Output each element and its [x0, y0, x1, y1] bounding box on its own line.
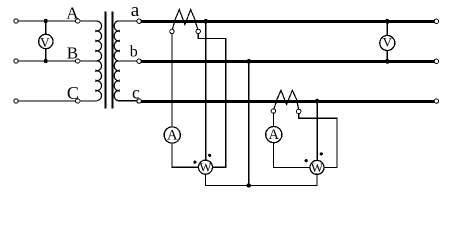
svg-text:A: A — [66, 3, 79, 22]
svg-text:V: V — [383, 35, 393, 50]
svg-text:B: B — [67, 43, 78, 62]
svg-text:c: c — [132, 83, 140, 103]
svg-text:W: W — [199, 159, 212, 174]
svg-text:a: a — [131, 0, 140, 21]
svg-text:A: A — [167, 127, 178, 143]
svg-text:W: W — [311, 160, 324, 175]
svg-text:A: A — [269, 127, 280, 143]
svg-text:b: b — [130, 43, 138, 60]
svg-text:C: C — [67, 83, 79, 103]
svg-text:V: V — [40, 35, 50, 50]
